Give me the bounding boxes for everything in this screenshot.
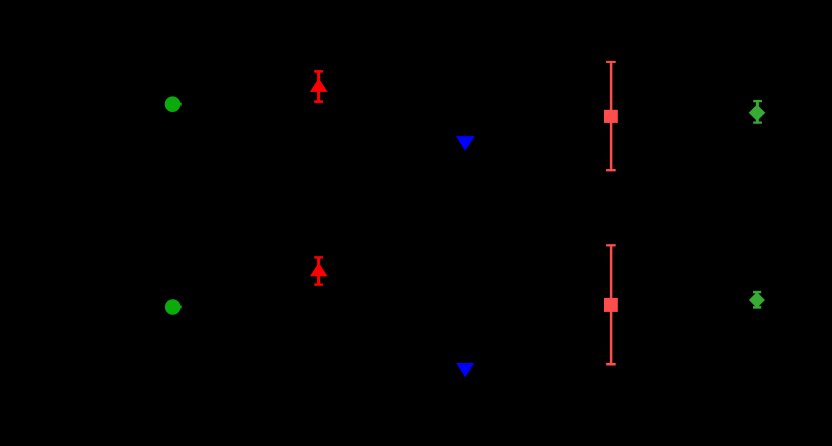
series 2 point 2: red error bar bbox=[314, 257, 323, 284]
series 2 point 1: red triangle-up marker bbox=[310, 78, 328, 92]
series 2 point 2: red triangle-up marker bbox=[310, 263, 328, 277]
series 5 point 1: green diamond marker bbox=[749, 105, 766, 122]
series 1 point 2: green circle marker bbox=[165, 299, 182, 315]
series 3 point 1: blue triangle-down marker bbox=[456, 136, 475, 151]
series 4 point 2: salmon-red square marker bbox=[604, 298, 618, 312]
series 4 point 2: salmon-red error bar bbox=[606, 245, 616, 364]
series 4 point 1: salmon-red error bar bbox=[606, 62, 616, 170]
series 2 point 1: red error bar bbox=[314, 71, 323, 102]
series 4 point 1: salmon-red square marker bbox=[604, 110, 618, 123]
series 1 point 1: green circle marker bbox=[165, 96, 182, 112]
series 3 point 2: blue triangle-down marker bbox=[456, 363, 474, 377]
series 5 point 1: green error bar bbox=[753, 101, 762, 123]
series 5 point 2: green error bar bbox=[753, 292, 761, 307]
series 5 point 2: green diamond marker bbox=[749, 292, 765, 308]
